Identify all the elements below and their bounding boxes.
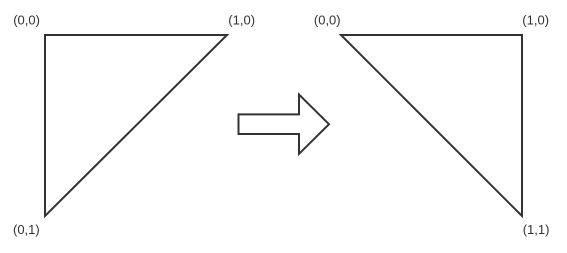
left triangle [45,35,227,216]
svg-text:(0,0): (0,0) [314,12,341,27]
right triangle [341,35,522,216]
svg-text:(0,0): (0,0) [13,12,40,27]
svg-text:(0,1): (0,1) [13,222,40,237]
arrow [239,95,330,154]
svg-text:(1,0): (1,0) [522,12,549,27]
svg-text:(1,0): (1,0) [228,12,255,27]
svg-text:(1,1): (1,1) [523,222,550,237]
